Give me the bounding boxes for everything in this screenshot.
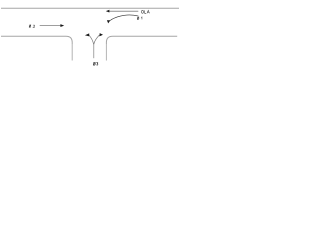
top road edge line: [1, 7, 179, 9]
side street Y arrow stem: [93, 44, 95, 59]
label "Ø 1" for phase 1 arrow: [137, 17, 142, 20]
Y arrow left arrowhead: [85, 33, 89, 36]
phase 2 arrowhead: [60, 24, 64, 27]
label "OLA" for overlap arrow: [142, 10, 150, 13]
Y arrow left branch: [89, 35, 93, 44]
bottom-left road edge with corner curve: [1, 36, 72, 44]
phase 2 arrow shaft: [40, 25, 61, 27]
overlap A arrowhead: [106, 10, 110, 13]
Y arrow right branch: [94, 35, 100, 44]
phase 1 curved arrow shaft: [110, 15, 138, 20]
left stem road edge vertical: [71, 44, 73, 61]
phase 1 arrowhead: [107, 20, 111, 23]
bottom-right road edge with corner curve: [106, 36, 177, 44]
label "Ø 2" for phase 2 arrow: [29, 25, 35, 28]
right stem road edge vertical: [105, 44, 107, 61]
label "Ø 3" below Y arrow stem: [93, 62, 98, 65]
overlap A arrow shaft: [110, 10, 139, 12]
Y arrow right arrowhead: [99, 33, 103, 36]
